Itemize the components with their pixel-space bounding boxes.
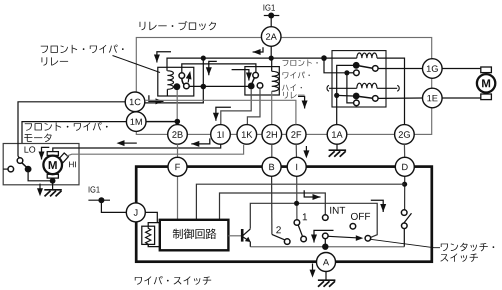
control circuit box <box>160 220 229 251</box>
connector pin 1G <box>423 59 443 79</box>
connector pin 1E <box>423 88 443 108</box>
flow arrow right of I <box>305 146 307 152</box>
wire 2B to F <box>177 144 179 157</box>
front wiper relay box <box>158 67 194 96</box>
rear wiper motor brush top <box>481 67 492 73</box>
wire J to control circuit node <box>146 212 158 222</box>
wiper arm with direction arrow <box>328 236 356 238</box>
park switch common <box>25 166 32 173</box>
wire: 1C to park switch <box>18 102 125 156</box>
front wiper high relay label <box>283 59 318 66</box>
transistor base wire <box>228 235 241 237</box>
ground under 1A <box>329 149 347 151</box>
position 1 contact <box>294 220 300 226</box>
high relay coil feed from 2A rail <box>271 58 273 71</box>
position 2 contact <box>284 239 290 245</box>
INT label <box>330 207 345 214</box>
front wiper relay actuation arrow <box>187 79 190 83</box>
front wiper relay coil <box>167 71 173 90</box>
position 2 blade <box>272 234 285 240</box>
one-touch switch upper contact <box>401 210 407 216</box>
wire: lower common to 1A vertical <box>337 94 353 97</box>
wire: control circuit to INT contact <box>220 193 326 220</box>
wire: junction down to 1C line <box>145 87 204 103</box>
wire I down to position-1 contact <box>296 176 298 220</box>
connector pin 2B <box>168 125 188 145</box>
flow arrow right of 1C <box>149 95 164 101</box>
connector pin J <box>126 203 145 222</box>
wire: HI brush to 1K <box>67 145 244 156</box>
HI label <box>69 161 76 167</box>
wire: one-touch switch to bus <box>403 229 405 247</box>
lower coil <box>357 83 377 88</box>
flow arrow below power rail junction <box>209 61 217 75</box>
wire B down to position-2 blade <box>271 176 273 234</box>
connector pin I <box>287 157 306 176</box>
wire: LO brush to 1I <box>53 144 221 151</box>
connector pin 2A <box>261 27 281 47</box>
INT contact <box>323 215 329 221</box>
high relay contact blade <box>252 78 254 83</box>
wire F to control circuit <box>177 176 179 219</box>
lower coil left hop mark <box>327 85 329 91</box>
ground under front motor <box>44 189 62 191</box>
one-touch switch label <box>441 243 494 252</box>
resistor top lead to control circuit <box>148 223 160 227</box>
front wiper motor label <box>25 122 108 131</box>
wire: motor lower brush to ground node <box>52 178 54 181</box>
wire: pivot to common bus <box>324 239 326 247</box>
front wiper relay label <box>41 45 124 54</box>
relay block boundary <box>136 38 431 135</box>
IG1 terminal (lower) <box>89 186 100 192</box>
connector pin 1C <box>125 92 145 112</box>
front motor brush bottom <box>47 174 58 178</box>
lower relay blade <box>359 97 372 99</box>
wire: left relay common down to 2B <box>176 90 178 125</box>
front wiper motor M <box>43 156 62 175</box>
connector pin 1M <box>126 112 146 132</box>
wire to motor ground <box>52 181 54 190</box>
node: I / collector junction <box>294 201 299 206</box>
park switch contact (to 1C) <box>17 158 23 164</box>
label leader line <box>113 56 161 73</box>
flow arrow at 2F corner <box>298 96 305 108</box>
connector pin A <box>317 253 336 272</box>
connector pin F <box>168 157 187 176</box>
node: 1A vertical junction <box>334 93 339 98</box>
flow arrow at relay block top-left <box>157 52 171 63</box>
flow arrow at LO <box>42 147 50 159</box>
wire 1G to rear motor <box>442 68 481 70</box>
lower relay common contact <box>353 93 360 100</box>
connector pin 2F <box>286 125 306 145</box>
wire: high relay common to 1I <box>221 89 251 124</box>
node: power rail junction at left relay branch <box>201 56 206 61</box>
wire: upper coil right end to 2G <box>377 58 405 125</box>
flow arrow west of 2B (upper) <box>117 140 125 146</box>
connector pin 1A <box>327 125 347 145</box>
relay unit box (two-coil unit) <box>332 51 386 107</box>
wire IG1 to J <box>101 200 126 212</box>
position 1 label <box>303 213 307 220</box>
ground flow arrow left of A <box>312 264 314 271</box>
wire: left relay upper contact to high relay upper contact <box>182 64 256 73</box>
wire 2G to D <box>403 144 405 157</box>
wire: NC branch down to lower NC contact <box>347 73 354 103</box>
rear wiper motor brush bottom <box>481 94 492 100</box>
IG1 power terminal (top) <box>264 4 275 10</box>
wire 2F to I <box>295 144 297 157</box>
1C to 2F line <box>145 100 296 124</box>
node: bus junction above A <box>322 244 328 250</box>
wire: high relay NO to 1K <box>247 88 260 124</box>
upper relay common contact <box>353 62 360 69</box>
wire: transistor collector to I-node <box>250 203 377 237</box>
node: D branch junction <box>402 182 407 187</box>
relay block label <box>140 21 216 30</box>
OFF contact <box>350 224 356 230</box>
front wiper high relay box <box>245 67 279 95</box>
node: motor ground junction <box>50 178 56 184</box>
high relay contact: fixed upper <box>253 72 259 78</box>
front wiper motor label box <box>22 122 126 144</box>
rear wiper motor M <box>477 74 495 92</box>
position 2 label <box>276 226 281 233</box>
front wiper relay contact: fixed upper <box>179 73 185 79</box>
flow arrow into high relay common <box>232 70 249 81</box>
connector pin 1I <box>211 125 231 145</box>
node: NO contact / high relay common junction <box>201 84 207 90</box>
park switch idle contact <box>8 166 14 172</box>
front wiper relay contact: fixed lower (NO) <box>184 83 190 89</box>
high relay common contact <box>248 83 255 90</box>
wiper arm pivot contact <box>323 233 329 239</box>
front wiper motor unit box <box>3 144 79 185</box>
upper relay NC contact <box>354 70 360 76</box>
flow arrow west toward 2B (lower) <box>191 138 210 144</box>
flow arrow near 1I wire <box>216 107 231 120</box>
power rail from left relay coil to washer unit coil <box>167 58 357 71</box>
label leader <box>370 239 441 248</box>
transistor emitter to bus <box>249 242 251 247</box>
flow arrow above one-touch switch <box>371 200 383 212</box>
resistor <box>142 226 155 244</box>
lower coil right hop mark <box>397 85 399 91</box>
LO label <box>25 146 36 152</box>
wiper switch box <box>136 167 432 262</box>
high relay contact: fixed NO <box>257 83 263 89</box>
wire 2A down to power rail <box>270 46 272 58</box>
lower relay NC contact <box>354 100 360 106</box>
front wiper relay contact blade <box>182 79 186 86</box>
connector pin 2H <box>262 125 282 145</box>
position 1 lower contact <box>301 236 307 242</box>
control circuit label <box>173 229 217 239</box>
connector pin 2G <box>395 125 415 145</box>
node: NC branch junction <box>344 70 349 75</box>
park switch blade <box>22 163 26 167</box>
upper relay NO contact <box>373 66 379 72</box>
connector pin B <box>262 157 281 176</box>
flow arrow at arm pivot <box>314 230 334 242</box>
node: power rail junction at NC branch <box>321 55 327 61</box>
connector pin D <box>395 157 414 176</box>
switch common bus <box>250 246 404 248</box>
flow arrow at I-node <box>304 190 320 197</box>
one-touch switch blade <box>403 213 412 225</box>
wire 1M to junction <box>146 121 177 123</box>
vertical branch from power rail to NO contact node <box>202 58 204 86</box>
wiper arm end contact <box>365 236 371 242</box>
transistor Q1 <box>241 229 244 242</box>
wire 1A to ground <box>336 144 338 150</box>
wire: lower NO contact to 1E <box>378 97 423 99</box>
node: power rail junction under 2A <box>269 56 274 61</box>
resistor bottom lead to control circuit <box>148 244 160 246</box>
ground under A <box>318 279 336 281</box>
position 1 blade <box>298 225 302 237</box>
front motor HI brush <box>59 153 69 163</box>
ground flow arrow <box>39 184 41 190</box>
wire A to ground <box>325 272 327 280</box>
connector pin 1K <box>237 125 257 145</box>
wiper switch label <box>135 276 211 285</box>
wire: label box top to 2B junction <box>146 121 177 123</box>
wire IG1 to 2A <box>270 16 272 27</box>
wire D to one-touch switch <box>404 176 406 210</box>
wire 2H to B <box>271 144 273 157</box>
flow arrow near 2A <box>253 47 263 52</box>
upper relay blade <box>359 66 372 68</box>
front motor brush top (LO) <box>47 152 58 156</box>
one-touch switch lower contact <box>402 223 408 229</box>
wire: park common to motor ground node <box>28 172 52 181</box>
lower coil left lead <box>329 87 357 89</box>
lower coil right lead <box>377 87 397 89</box>
front wiper relay common contact <box>174 83 181 90</box>
wire: NO contact to power rail branch <box>189 85 249 87</box>
wire: high relay coil to 2H <box>271 91 273 124</box>
lower relay NO contact <box>373 96 379 102</box>
wire: control circuit to D branch <box>196 184 404 219</box>
wire: commons to 1A <box>337 65 353 124</box>
node: 1M junction above 2B <box>175 119 181 125</box>
upper coil <box>357 53 377 58</box>
front wiper high relay coil <box>272 71 279 91</box>
wire: power rail branch to NC contacts <box>324 58 344 73</box>
OFF label <box>351 213 370 220</box>
wire 1E to rear motor <box>442 97 481 99</box>
wire: upper NO contact to 1G <box>378 68 423 70</box>
